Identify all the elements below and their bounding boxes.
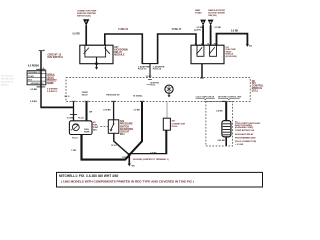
svg-text:DETAILS: DETAILS — [1, 84, 9, 87]
svg-text:GROUND (JUMPER TO TERMINAL 1): GROUND (JUMPER TO TERMINAL 1) — [133, 158, 169, 161]
svg-text:DISTRIBUTION: DISTRIBUTION — [1, 79, 14, 81]
svg-text:FUSES: FUSES — [195, 13, 202, 15]
svg-text:+ 0.5 BK: + 0.5 BK — [235, 144, 244, 146]
svg-text:PLUG: PLUG — [72, 137, 78, 139]
svg-text:COLD START VALVE: COLD START VALVE — [196, 95, 215, 98]
svg-text:A: A — [85, 20, 87, 24]
svg-text:W10: W10 — [28, 80, 32, 82]
svg-text:PLUG #3: PLUG #3 — [138, 69, 147, 71]
svg-text:RELAY: RELAY — [82, 94, 89, 97]
svg-text:PROGRAMMED AND: PROGRAMMED AND — [235, 136, 256, 139]
svg-text:FUSE #2: FUSE #2 — [118, 28, 128, 31]
svg-text:PRESSURE SW: PRESSURE SW — [106, 94, 120, 96]
svg-text:87: 87 — [201, 43, 203, 45]
svg-text:W11: W11 — [120, 134, 125, 136]
svg-text:M3 30: M3 30 — [65, 96, 70, 98]
svg-text:A: A — [202, 20, 204, 24]
svg-text:CONN: CONN — [28, 76, 34, 78]
svg-text:2.5 RD: 2.5 RD — [215, 27, 222, 29]
svg-text:0.5 BK: 0.5 BK — [30, 89, 37, 91]
svg-text:(KICKDOWN): (KICKDOWN) — [226, 56, 237, 58]
svg-text:1 RD: 1 RD — [71, 150, 76, 152]
svg-text:(PLUG CONNECTOR): (PLUG CONNECTOR) — [235, 141, 256, 143]
svg-text:1.5 BK: 1.5 BK — [133, 109, 140, 111]
svg-text:GROUND W10: GROUND W10 — [31, 83, 44, 85]
svg-text:(RT): (RT) — [197, 29, 201, 31]
svg-text:PUMP: PUMP — [84, 132, 90, 134]
svg-text:0.75 BK: 0.75 BK — [103, 109, 111, 111]
svg-text:0.5 BK: 0.5 BK — [67, 117, 74, 119]
svg-text:30: 30 — [195, 43, 197, 45]
svg-text:0.5 BK: 0.5 BK — [150, 152, 157, 154]
svg-text:SECTION FOR: SECTION FOR — [1, 82, 14, 84]
svg-text:(EZL): (EZL) — [252, 89, 258, 92]
svg-text:PLUG: PLUG — [172, 126, 178, 128]
svg-text:PLUG #4: PLUG #4 — [153, 68, 162, 71]
svg-text:FAN (F23): FAN (F23) — [208, 14, 217, 17]
svg-text:PLUG: PLUG — [111, 145, 117, 147]
svg-text:MIXTURE CONTROL UNIT: MIXTURE CONTROL UNIT — [218, 96, 242, 98]
svg-text:( 1992 MODELS WITH COMPONENTS: ( 1992 MODELS WITH COMPONENTS PRINTED IN… — [61, 180, 194, 184]
svg-text:0.5 RD/BK: 0.5 RD/BK — [28, 66, 39, 68]
svg-text:30: 30 — [207, 43, 209, 45]
svg-text:OR: OR — [89, 112, 93, 114]
svg-text:87: 87 — [214, 43, 216, 45]
svg-text:B: B — [210, 20, 212, 24]
svg-text:0.85 BK: 0.85 BK — [218, 140, 226, 142]
svg-text:(IN ENGINE COMP): (IN ENGINE COMP) — [235, 127, 253, 129]
svg-text:30: 30 — [43, 50, 45, 52]
svg-text:(M3): (M3) — [93, 130, 97, 132]
svg-text:PLUG: PLUG — [150, 85, 156, 87]
svg-text:0.5 RD: 0.5 RD — [146, 76, 152, 78]
svg-text:MITCHELL1: FIG. 3 A 280 400: MITCHELL1: FIG. 3 A 280 400 WHT 4/92 — [59, 174, 119, 178]
svg-text:PLUG: PLUG — [78, 117, 84, 119]
svg-text:0.5 BK/YL: 0.5 BK/YL — [47, 91, 58, 93]
svg-text:FUSE #7: FUSE #7 — [172, 28, 182, 31]
svg-text:TD SIGNAL: TD SIGNAL — [133, 95, 144, 98]
svg-text:0.5 BK: 0.5 BK — [30, 101, 37, 103]
svg-text:IGN SWITCH: IGN SWITCH — [48, 56, 63, 59]
svg-text:MODULE: MODULE — [114, 54, 125, 57]
svg-text:0.5 RD: 0.5 RD — [73, 33, 80, 35]
svg-text:1 RD: 1 RD — [122, 157, 127, 159]
svg-text:TERMINAL 30: TERMINAL 30 — [28, 71, 40, 74]
svg-text:SWITCH (S2/1): SWITCH (S2/1) — [77, 15, 91, 17]
svg-text:0.5 BK: 0.5 BK — [216, 111, 223, 113]
svg-text:COMP APPROX ON: COMP APPROX ON — [235, 129, 255, 132]
svg-text:AUXILIARY RELAY: AUXILIARY RELAY — [235, 133, 254, 136]
svg-text:SEE GROUND: SEE GROUND — [1, 76, 14, 78]
svg-text:0.5 BK: 0.5 BK — [231, 30, 238, 32]
